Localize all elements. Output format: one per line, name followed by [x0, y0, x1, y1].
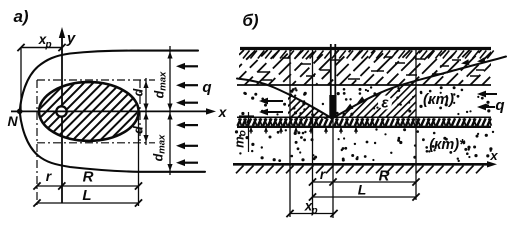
- borehole right wall: [334, 44, 336, 118]
- compacted wedge hatch left of borehole: [261, 92, 359, 119]
- dimension line r-R (panel b): [313, 181, 417, 183]
- svg-text:ε: ε: [381, 95, 389, 112]
- chain-line box around ellipse bottom: [37, 142, 155, 144]
- swelling arrows under seam band: [250, 128, 252, 134]
- dimension line L (panel a): [37, 202, 139, 204]
- ground surface line (panel b): [240, 47, 491, 50]
- extension line r left / L left (panel b): [312, 49, 314, 216]
- svg-text:а): а): [13, 7, 28, 26]
- dimension x_p line (panel a): [21, 47, 62, 49]
- blast contour curve upper branch: [20, 51, 198, 112]
- load q arrows right (panel b): [484, 93, 497, 95]
- svg-text:R: R: [379, 168, 390, 185]
- dimension line d_max (vertical): [169, 46, 171, 175]
- dimension line L (panel b): [313, 196, 417, 198]
- label epsilon: [378, 96, 392, 110]
- svg-text:L: L: [82, 187, 91, 204]
- svg-text:x: x: [218, 104, 228, 120]
- dimension line r-R (panel a): [37, 185, 139, 187]
- flow arrowheads on epsilon curve: [461, 59, 469, 65]
- extension line R right (panel b): [415, 49, 417, 201]
- extension line from N up to x_p dimension: [20, 48, 22, 110]
- compacted wedge hatch right of borehole: [297, 80, 453, 118]
- seam band bottom line: [237, 126, 491, 128]
- borehole left wall: [330, 44, 332, 118]
- node N point: [17, 109, 23, 115]
- svg-text:p: p: [44, 40, 51, 51]
- seam band zigzag fill: [238, 118, 241, 126]
- chain-line box around ellipse left / extension to L dimension: [36, 80, 38, 206]
- bedrock hatch ticks: [236, 166, 244, 174]
- svg-text:y: y: [66, 30, 76, 47]
- svg-text:q: q: [202, 79, 211, 96]
- chain-line box around ellipse right: [139, 80, 141, 143]
- x-axis of panel a: [17, 110, 210, 112]
- dimension line x_p (panel b): [290, 213, 334, 215]
- svg-text:(кm)*: (кm)*: [429, 137, 466, 153]
- bedrock ground line (x-axis panel b): [233, 163, 490, 166]
- svg-text:x: x: [489, 148, 498, 163]
- svg-text:d: d: [132, 126, 146, 134]
- wire x-axis dash lead-in: [11, 110, 17, 112]
- lower dotted layer dots: [294, 132, 297, 135]
- compaction arrows left (dotted layer): [266, 100, 283, 102]
- layer boundary line (panel b): [237, 84, 491, 86]
- extension line x_p left (panel b): [289, 49, 291, 218]
- epsilon curve left branch: [237, 79, 332, 119]
- short horizontal dashes in upper layer: [258, 71, 270, 73]
- surface short hatch ticks: [243, 51, 250, 59]
- blast contour curve lower branch: [20, 111, 205, 172]
- compacted zone hatched ellipse: [39, 82, 139, 141]
- wire x-axis through charge circle: [54, 110, 69, 112]
- chain-line box around ellipse top: [37, 79, 155, 81]
- svg-text:L: L: [358, 182, 367, 198]
- dimension line m0: [248, 112, 250, 152]
- svg-text:p: p: [310, 206, 317, 217]
- upper dotted layer dots: [397, 87, 399, 89]
- upper soil layer hatch: [197, 50, 508, 85]
- svg-text:R: R: [83, 169, 94, 186]
- dimension line d (vertical): [145, 78, 147, 145]
- epsilon curve right branch: [332, 57, 506, 119]
- svg-text:(кm): (кm): [423, 91, 454, 108]
- seam band top line: [237, 116, 491, 118]
- svg-text:q: q: [495, 97, 504, 114]
- borehole axis extension below band: [332, 118, 334, 218]
- svg-text:N: N: [7, 113, 18, 129]
- extension line ellipse right edge down to dimensions: [138, 112, 140, 206]
- svg-text:d: d: [132, 88, 146, 96]
- charge circle at origin: [56, 106, 66, 116]
- svg-text:б): б): [242, 11, 259, 30]
- svg-text:r: r: [320, 167, 326, 182]
- dimension m0 extension tick: [239, 115, 254, 117]
- y-axis of panel a: [61, 32, 63, 203]
- distributed load q arrows (panel a): [183, 65, 198, 67]
- borehole charge fill: [329, 95, 336, 118]
